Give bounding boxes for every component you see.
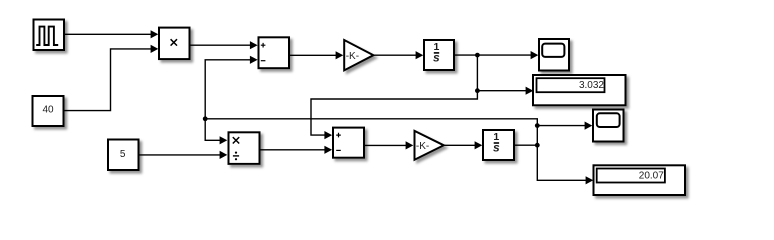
wire sum1 to gain1 bbox=[289, 51, 343, 59]
sum block Sum1 (+ -) bbox=[259, 37, 290, 68]
wire integrator1 to scope1 bbox=[454, 51, 538, 59]
pulse generator source block bbox=[34, 20, 65, 51]
node junction at display1 branch bbox=[475, 88, 480, 93]
wire integrator2 to junction bbox=[514, 144, 537, 146]
gain block -K- (Gain1) bbox=[344, 40, 373, 70]
wire feedback into divide upper input bbox=[205, 119, 227, 145]
node junction at integrator2 output bbox=[535, 143, 540, 148]
constant block value 5 bbox=[108, 140, 139, 171]
integrator block 1/s (Integrator1) bbox=[424, 40, 454, 70]
wire integrator1 feedback to sum2 plus input bbox=[311, 91, 477, 140]
wire feedback into sum1 minus input bbox=[205, 56, 257, 119]
wire constant 40 to product input 2 bbox=[64, 45, 159, 111]
wire branch to scope2 bbox=[537, 122, 592, 130]
wire integrator1 branch down to display1 bbox=[477, 55, 533, 95]
wire product to sum1 plus input bbox=[190, 41, 258, 49]
sum block Sum2 (+ -) bbox=[333, 128, 364, 158]
integrator block 1/s (Integrator2) bbox=[483, 130, 514, 160]
product block (multiply) bbox=[159, 28, 190, 59]
svg-text:5: 5 bbox=[120, 149, 126, 160]
wire vertical through integrator2 output down to display2 bbox=[537, 126, 593, 185]
gain block -K- (Gain2) bbox=[415, 131, 444, 160]
wire gain2 to integrator2 bbox=[444, 141, 483, 149]
node junction on feedback at left bbox=[203, 116, 208, 121]
svg-text:20.07: 20.07 bbox=[639, 170, 664, 181]
display block Display2 value 20.07 bbox=[594, 165, 686, 195]
svg-text:s: s bbox=[433, 51, 440, 65]
node junction at scope2 branch bbox=[535, 123, 540, 128]
wire gain1 to integrator1 bbox=[374, 51, 424, 59]
svg-text:-K-: -K- bbox=[416, 141, 429, 152]
wire constant 5 to divide lower input bbox=[139, 151, 228, 159]
svg-text:40: 40 bbox=[42, 105, 54, 116]
wire pulse generator to product input 1 bbox=[64, 30, 158, 38]
svg-text:-K-: -K- bbox=[346, 51, 359, 62]
node junction on integrator1 output bbox=[475, 53, 480, 58]
divide block (x over divide) bbox=[229, 132, 260, 164]
wire sum2 to gain2 bbox=[364, 141, 413, 149]
constant block value 40 bbox=[33, 96, 64, 126]
scope block Scope1 bbox=[539, 39, 569, 71]
wire divide to sum2 minus input bbox=[260, 146, 333, 154]
wire long feedback line from integrator2 output bbox=[205, 119, 537, 126]
svg-text:3.032: 3.032 bbox=[579, 80, 604, 91]
display block Display1 value 3.032 bbox=[533, 75, 626, 105]
svg-text:s: s bbox=[493, 141, 500, 155]
scope block Scope2 bbox=[593, 110, 624, 142]
